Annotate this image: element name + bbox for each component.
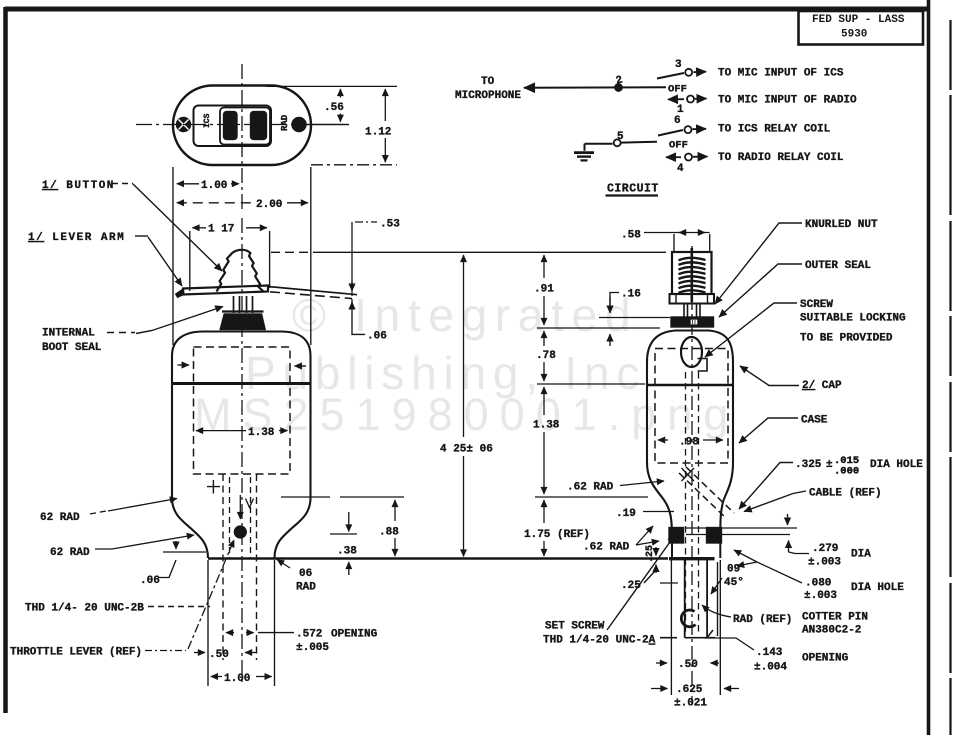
svg-text:DIA: DIA <box>851 549 871 561</box>
body taper right <box>275 498 311 559</box>
small V tick <box>246 499 254 508</box>
svg-text:.50: .50 <box>678 659 698 671</box>
svg-text:.88: .88 <box>379 527 399 539</box>
svg-text:RAD: RAD <box>280 114 290 131</box>
dim .98 <box>658 439 668 441</box>
lever arm left bent tip <box>176 289 185 298</box>
dim .38 <box>348 512 350 532</box>
throttle lever phantom leader <box>188 540 234 649</box>
svg-text:MICROPHONE: MICROPHONE <box>455 90 521 102</box>
svg-text:AN380C2-2: AN380C2-2 <box>802 625 861 637</box>
circuit: contact 6 circle <box>685 126 692 133</box>
slot dashed lines <box>223 474 257 660</box>
svg-text:INTERNAL: INTERNAL <box>42 328 95 340</box>
set screw block left <box>669 527 685 544</box>
circuit: contact 4 circle <box>685 154 692 161</box>
svg-text:±.005: ±.005 <box>296 642 329 654</box>
dim 1.17: extension lines <box>189 231 191 291</box>
top view: oval cover plate <box>173 86 311 166</box>
svg-text:TO MIC INPUT OF RADIO: TO MIC INPUT OF RADIO <box>718 95 857 107</box>
svg-text:.143: .143 <box>756 647 783 659</box>
svg-text:.000: .000 <box>834 466 859 478</box>
dim .06 left tick <box>163 551 206 553</box>
svg-text:MS251980001.png: MS251980001.png <box>194 389 739 440</box>
circuit: contact 4 lead wire with left arrow <box>666 156 681 158</box>
svg-text:±: ± <box>826 459 833 471</box>
svg-text:.25: .25 <box>645 545 656 563</box>
svg-text:TO ICS RELAY COIL: TO ICS RELAY COIL <box>718 124 831 136</box>
extension line right of oval down to body <box>310 167 312 345</box>
svg-text:TO RADIO RELAY COIL: TO RADIO RELAY COIL <box>718 152 844 164</box>
knurl texture <box>679 258 706 261</box>
cotter hole tick <box>660 582 678 584</box>
leader button <box>133 184 222 271</box>
page edge broken line right <box>949 20 951 735</box>
stem chamfer <box>707 630 713 638</box>
body seam line <box>172 382 311 385</box>
svg-text:1/ BUTTON: 1/ BUTTON <box>42 180 115 192</box>
circuit: wire microphone to pole 2 <box>524 86 666 89</box>
button: serrated triangle <box>217 250 264 292</box>
svg-text:RAD (REF): RAD (REF) <box>733 614 792 626</box>
svg-text:TO BE PROVIDED: TO BE PROVIDED <box>800 333 893 345</box>
dim .88 extension line <box>281 496 404 498</box>
svg-text:2/ CAP: 2/ CAP <box>802 380 842 392</box>
body sides <box>172 384 311 498</box>
knurled nut flange <box>670 294 715 304</box>
taper plane tick <box>535 496 648 498</box>
throttle lever pivot dot <box>234 526 247 539</box>
reference plane line at button apex <box>271 251 310 253</box>
svg-text:ICS: ICS <box>203 113 212 128</box>
dim .53 bracket <box>355 221 377 223</box>
svg-text:OFF: OFF <box>669 140 688 152</box>
svg-text:1.38: 1.38 <box>248 427 275 439</box>
svg-text:SUITABLE LOCKING: SUITABLE LOCKING <box>800 313 906 325</box>
cotter pin loop <box>681 610 695 627</box>
outer seal black band <box>671 317 715 328</box>
svg-text:5: 5 <box>617 131 624 143</box>
svg-text:5930: 5930 <box>841 29 867 41</box>
cable dashed lines <box>686 467 734 513</box>
svg-text:1.75 (REF): 1.75 (REF) <box>524 529 590 541</box>
right body dome <box>647 331 733 386</box>
extension line left of oval down to body <box>172 167 174 345</box>
circuit: pole 2 junction dot <box>614 83 622 91</box>
svg-text:DIA HOLE: DIA HOLE <box>851 582 904 594</box>
svg-text:.50: .50 <box>209 649 229 661</box>
svg-text:OFF: OFF <box>668 84 687 96</box>
top view: button housing rounded rect <box>194 106 272 147</box>
circuit: contact 1 lead wire with left arrow <box>668 98 684 100</box>
right body seam <box>647 384 733 387</box>
svg-text:OPENING: OPENING <box>802 653 849 665</box>
dim .56: arrows and text <box>339 89 341 98</box>
svg-text:06: 06 <box>299 568 312 580</box>
fed sup class box <box>799 11 924 45</box>
svg-text:.78: .78 <box>536 350 556 362</box>
knurled nut body <box>672 252 712 294</box>
svg-text:.98: .98 <box>679 437 699 449</box>
page border top <box>5 7 930 12</box>
dim 1.38 (left body) <box>196 430 246 432</box>
svg-text:KNURLED NUT: KNURLED NUT <box>805 219 878 231</box>
svg-text:.62 RAD: .62 RAD <box>583 542 630 554</box>
svg-text:±.003: ±.003 <box>808 557 841 569</box>
svg-text:62 RAD: 62 RAD <box>50 547 90 559</box>
circuit: contact 1 arrow to RADIO <box>695 98 707 100</box>
svg-text:.325: .325 <box>795 459 822 471</box>
thread relief line <box>717 562 719 636</box>
circuit: wire ground to pole 5 <box>585 143 613 145</box>
svg-text:THROTTLE LEVER (REF): THROTTLE LEVER (REF) <box>10 647 142 659</box>
circuit: contact 3 circle <box>685 69 692 76</box>
dim .56: extension line oval top <box>266 85 397 87</box>
svg-text:1.12: 1.12 <box>365 127 391 139</box>
svg-text:THD 1/4-20 UNC-2A: THD 1/4-20 UNC-2A <box>543 635 656 647</box>
svg-text:.56: .56 <box>324 102 344 114</box>
svg-text:.279: .279 <box>812 543 838 555</box>
svg-text:.06: .06 <box>140 575 160 587</box>
stem extension lines <box>208 560 275 686</box>
dim .38 tick <box>330 533 357 535</box>
dim .06 lever arm bracket <box>351 302 353 310</box>
dim 4.25 +-.06 <box>463 255 465 437</box>
screw notch square <box>698 359 708 372</box>
mounting plane baseline <box>208 557 668 560</box>
circuit: contact 4 arrow <box>693 156 708 158</box>
svg-text:.06: .06 <box>367 331 387 343</box>
svg-text:4 25± 06: 4 25± 06 <box>440 444 493 456</box>
svg-text:1.38: 1.38 <box>533 420 560 432</box>
svg-text:.62 RAD: .62 RAD <box>567 482 614 494</box>
page border left <box>3 7 8 713</box>
circuit: ground symbol <box>584 144 586 151</box>
right figure centerline <box>691 246 693 705</box>
svg-text:1.00: 1.00 <box>224 673 250 685</box>
svg-text:2.00: 2.00 <box>256 199 282 211</box>
svg-text:.38: .38 <box>337 546 357 558</box>
circuit: wire pole 5 to off <box>621 141 657 144</box>
circuit: pole 5 circle <box>614 139 621 146</box>
right taper right <box>720 463 733 538</box>
arrow down to pivot <box>239 495 241 519</box>
svg-text:.91: .91 <box>534 284 554 296</box>
svg-text:SET SCREW: SET SCREW <box>545 621 605 633</box>
dim .88 <box>394 500 396 521</box>
svg-text:RAD: RAD <box>296 582 316 594</box>
leader boot seal <box>136 307 223 334</box>
stem extension lines <box>671 560 720 695</box>
stem mounting tick <box>669 557 715 560</box>
svg-text:.58: .58 <box>621 230 641 242</box>
radius center cross <box>207 480 220 494</box>
svg-text:62 RAD: 62 RAD <box>40 512 80 524</box>
svg-text:1.00: 1.00 <box>201 180 227 192</box>
circuit: contact 3 lead wire <box>657 73 684 79</box>
circuit: contact 6 arrow <box>693 128 707 130</box>
dim 1.17 <box>192 227 206 229</box>
cap screw keyhole <box>681 337 702 367</box>
circuit: contact 1 circle <box>687 96 694 103</box>
svg-text:±.021: ±.021 <box>674 698 707 710</box>
svg-text:2: 2 <box>615 74 624 87</box>
lever arm plate <box>183 286 268 295</box>
svg-text:3: 3 <box>675 59 682 71</box>
radius cross right figure <box>682 468 695 481</box>
svg-text:.080: .080 <box>805 578 831 590</box>
svg-text:±.003: ±.003 <box>804 590 837 602</box>
svg-text:1 17: 1 17 <box>208 224 234 236</box>
internal boot seal block <box>220 314 266 331</box>
dim 2.00 <box>177 202 253 204</box>
stem bottom <box>660 637 715 639</box>
svg-text:TO: TO <box>481 76 495 88</box>
screw block right <box>706 527 722 544</box>
dim chain .91 .78 1.38 1.75 <box>543 255 545 278</box>
svg-text:© Integrated: © Integrated <box>292 289 638 341</box>
svg-text:±.004: ±.004 <box>754 662 787 674</box>
svg-text:.625: .625 <box>676 684 703 696</box>
top view: rocker pad left (ICS) <box>223 111 238 140</box>
stem slot dashed <box>686 372 699 636</box>
stem threaded walls <box>672 537 720 558</box>
internal mechanism dashed rect <box>194 347 291 474</box>
svg-text:OUTER SEAL: OUTER SEAL <box>805 260 871 272</box>
dim .50 (left figure) <box>194 652 205 654</box>
page border right <box>927 0 931 735</box>
svg-text:BOOT SEAL: BOOT SEAL <box>42 342 102 354</box>
svg-text:SCREW: SCREW <box>800 299 833 311</box>
svg-text:.19: .19 <box>616 508 636 520</box>
svg-text:45°: 45° <box>724 577 744 589</box>
top view: mounting hole right <box>291 117 306 132</box>
svg-text:OPENING: OPENING <box>331 629 378 641</box>
right body sides <box>647 385 733 463</box>
dim 1.12: vertical dimension line <box>384 89 386 121</box>
seam plane tick <box>537 383 645 385</box>
svg-text:CASE: CASE <box>801 415 828 427</box>
svg-text:DIA HOLE: DIA HOLE <box>870 459 923 471</box>
lower stem walls <box>685 560 707 638</box>
top view: horizontal centerline <box>136 124 295 126</box>
panel plane line <box>537 327 660 329</box>
actuator stem posts <box>234 296 253 313</box>
top view: rocker frame <box>220 108 270 145</box>
dim 1.00 (left figure) <box>211 676 222 678</box>
circuit: contact 6 lead wire <box>658 130 683 136</box>
dim 1.00 <box>177 183 199 185</box>
label .06 RAD right of stem <box>277 560 290 569</box>
svg-text:1/ LEVER ARM: 1/ LEVER ARM <box>28 232 125 244</box>
top view: mounting hole left <box>176 117 191 132</box>
leader lever arm <box>148 237 182 286</box>
body dome <box>172 332 311 385</box>
svg-text:TO MIC INPUT OF ICS: TO MIC INPUT OF ICS <box>718 68 844 80</box>
svg-text:FED SUP - LASS: FED SUP - LASS <box>812 14 905 26</box>
circuit: contact 3 arrow to ICS <box>694 71 707 74</box>
svg-text:4: 4 <box>677 163 684 175</box>
right internal dashed rect <box>655 349 728 464</box>
svg-text:THD 1/4- 20 UNC-2B: THD 1/4- 20 UNC-2B <box>25 603 144 615</box>
svg-text:.53: .53 <box>380 219 400 231</box>
svg-text:.572: .572 <box>296 629 322 641</box>
dim 1.12: bottom extension dash-dot <box>311 164 397 166</box>
right taper left <box>647 463 672 538</box>
top view: rocker pad right (RAD) <box>250 111 267 140</box>
outer seal top plane line <box>599 317 670 319</box>
small arrows at dashed rect top <box>178 364 190 366</box>
svg-text:CABLE (REF): CABLE (REF) <box>809 488 882 500</box>
body taper left <box>172 498 208 559</box>
svg-text:COTTER PIN: COTTER PIN <box>802 612 868 624</box>
throttle lever dashed lines <box>230 477 251 558</box>
vertical centerline through both views <box>241 64 243 686</box>
dim .572 opening <box>226 632 234 634</box>
svg-text:6: 6 <box>674 115 681 127</box>
bushing posts <box>684 304 700 317</box>
lever arm extension to right <box>268 287 357 295</box>
svg-text:.16: .16 <box>621 289 641 301</box>
svg-text:CIRCUIT: CIRCUIT <box>607 183 659 196</box>
